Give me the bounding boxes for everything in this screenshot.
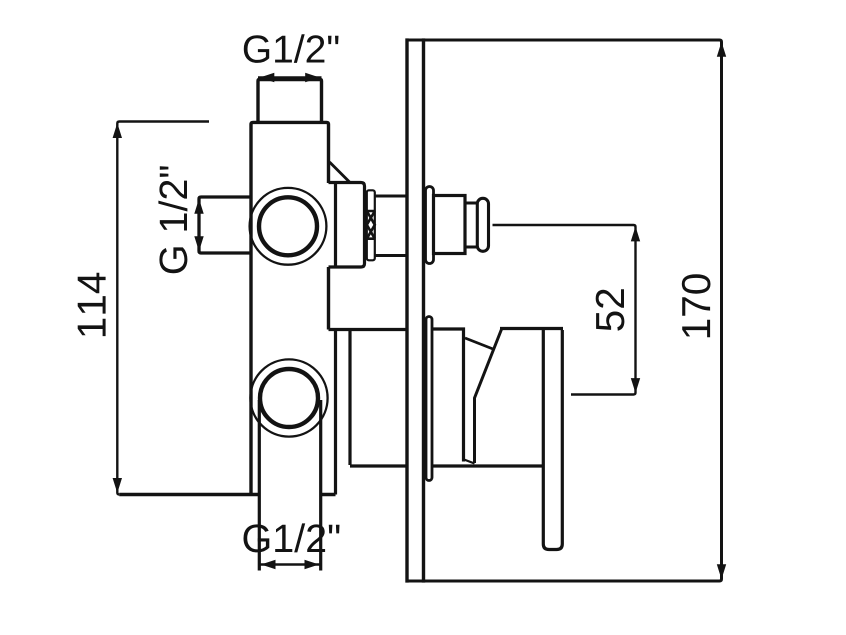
dimension G1/2 bottom line	[259, 563, 320, 565]
dimension G1/2 top line	[258, 76, 322, 78]
bottom port inner circle	[260, 369, 318, 427]
diverter knob cap	[477, 198, 488, 251]
dimension G 1/2 left arrow up	[194, 199, 203, 214]
dimension G1/2 bottom arrow right	[305, 560, 320, 569]
left port G 1/2	[199, 197, 251, 253]
dimension 114 line with extensions	[117, 122, 209, 495]
dimension 114 arrow up	[113, 123, 122, 138]
dimension 114 arrow down	[113, 478, 122, 493]
170 extension lines and dimension line	[406, 40, 722, 581]
label G 1/2 left	[158, 166, 187, 273]
label 170	[682, 274, 711, 337]
diverter stem	[375, 196, 407, 256]
threaded stub	[367, 190, 375, 260]
handle hub top edge	[500, 327, 563, 330]
dimension G1/2 top arrow left	[260, 73, 275, 82]
dimension 52 arrow down	[631, 378, 640, 393]
bottom pipe walls	[259, 400, 320, 571]
top port outer circle	[250, 188, 327, 265]
handle cone steep diagonal	[475, 328, 503, 463]
diverter knob neck	[465, 203, 478, 247]
diverter flange	[329, 183, 365, 268]
chamfer diagonal body to flange	[330, 162, 351, 183]
dimension G1/2 top arrow right	[305, 73, 320, 82]
top pipe G1/2	[258, 80, 322, 123]
bottom port outer circle	[250, 359, 327, 436]
diverter knob body	[434, 196, 466, 254]
handle cone shallow diagonal	[465, 338, 493, 349]
label 114	[78, 273, 106, 336]
dimension G1/2 bottom arrow left	[261, 560, 276, 569]
dimension G 1/2 left line	[198, 197, 200, 253]
wall plate	[407, 38, 424, 582]
label G1/2 bottom	[244, 523, 340, 552]
label 52	[596, 289, 625, 330]
dimension 170 arrow up	[717, 42, 726, 57]
handle escutcheon body	[432, 329, 543, 466]
label G1/2 top	[244, 34, 339, 63]
dimension 52 arrow up	[631, 226, 640, 241]
handle cone bottom step	[464, 460, 475, 464]
dimension 170 arrow down	[717, 564, 726, 579]
lever handle	[543, 330, 562, 550]
dimension 52 line with extensions	[493, 225, 636, 395]
top port inner circle	[259, 197, 317, 255]
thread marks	[367, 211, 375, 239]
handle escutcheon strip	[426, 317, 432, 481]
body	[119, 122, 335, 494]
dimension G 1/2 left arrow down	[194, 236, 203, 251]
diverter escutcheon strip	[426, 187, 434, 264]
lower protrusion	[329, 330, 408, 495]
